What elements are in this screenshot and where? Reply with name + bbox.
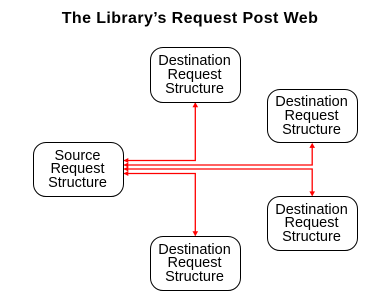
title: The Library's Request Post Web: [0, 10, 380, 28]
wire B: source to right-upper destination: [124, 144, 312, 165]
wire C: source to right-lower destination: [124, 169, 312, 196]
wire A: source to top destination: [124, 103, 195, 161]
arrowhead into source (wire C): [124, 167, 129, 172]
box: right-lower Destination Request Structure: [267, 196, 358, 251]
arrowhead into right-lower destination: [309, 191, 315, 196]
arrowhead into right-upper destination: [309, 143, 315, 148]
box: Source Request Structure: [33, 142, 124, 197]
box: bottom Destination Request Structure: [150, 236, 241, 291]
arrowhead into top destination: [193, 102, 199, 107]
arrowhead into source (wire B): [124, 163, 129, 168]
arrowhead into source (wire A): [124, 158, 129, 163]
arrowhead into source (wire D): [124, 171, 129, 176]
box: top Destination Request Structure: [150, 47, 241, 103]
box: right-upper Destination Request Structure: [267, 89, 358, 144]
wire D: source to bottom destination: [124, 174, 195, 236]
arrowhead into bottom destination: [193, 231, 199, 236]
